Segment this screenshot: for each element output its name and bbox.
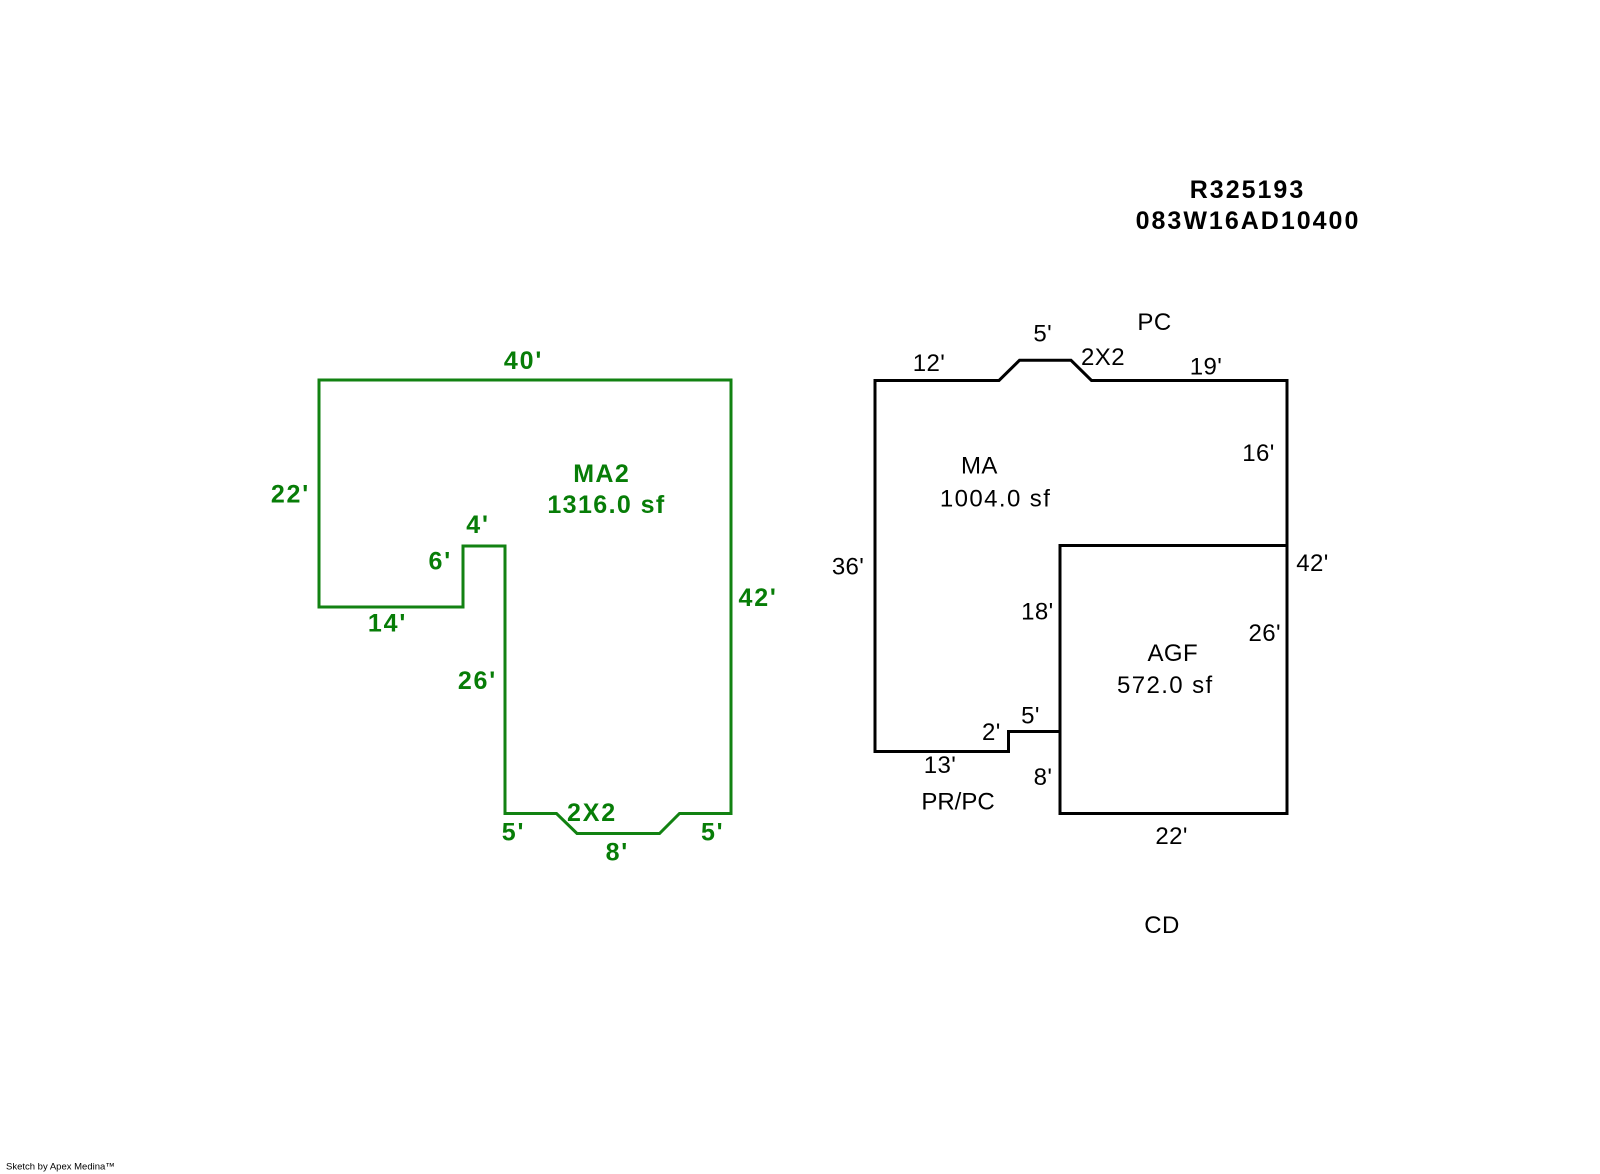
svg-text:R325193: R325193 (1190, 176, 1305, 204)
svg-text:22': 22' (271, 481, 310, 509)
svg-text:5': 5' (701, 819, 724, 847)
svg-text:2X2: 2X2 (1081, 344, 1125, 371)
svg-text:572.0 sf: 572.0 sf (1117, 672, 1214, 699)
svg-text:PR/PC: PR/PC (921, 788, 994, 815)
svg-text:13': 13' (924, 752, 956, 779)
svg-text:4': 4' (466, 511, 489, 539)
svg-text:5': 5' (1021, 702, 1040, 729)
svg-text:26': 26' (458, 667, 497, 695)
svg-text:22': 22' (1155, 823, 1187, 850)
svg-text:1316.0 sf: 1316.0 sf (547, 491, 665, 519)
svg-text:12': 12' (913, 350, 945, 377)
svg-text:PC: PC (1137, 309, 1171, 336)
svg-text:8': 8' (606, 839, 629, 867)
svg-text:26': 26' (1249, 620, 1281, 647)
svg-text:6': 6' (429, 548, 452, 576)
svg-text:19': 19' (1190, 354, 1222, 381)
svg-text:AGF: AGF (1148, 640, 1199, 667)
svg-text:2': 2' (982, 719, 1001, 746)
svg-text:CD: CD (1144, 912, 1179, 939)
svg-text:16': 16' (1242, 440, 1274, 467)
svg-text:40': 40' (504, 347, 543, 375)
svg-text:36': 36' (832, 554, 864, 581)
svg-text:42': 42' (1296, 550, 1328, 577)
svg-text:MA: MA (961, 453, 998, 480)
svg-text:18': 18' (1021, 599, 1053, 626)
svg-text:2X2: 2X2 (567, 799, 617, 827)
svg-text:42': 42' (739, 584, 778, 612)
svg-text:083W16AD10400: 083W16AD10400 (1136, 207, 1361, 235)
svg-text:1004.0 sf: 1004.0 sf (940, 485, 1051, 512)
svg-text:5': 5' (1033, 321, 1052, 348)
svg-text:5': 5' (502, 819, 525, 847)
svg-text:14': 14' (368, 610, 407, 638)
svg-text:Sketch by Apex Medina™: Sketch by Apex Medina™ (6, 1162, 115, 1173)
svg-text:8': 8' (1034, 764, 1053, 791)
svg-text:MA2: MA2 (573, 460, 630, 488)
